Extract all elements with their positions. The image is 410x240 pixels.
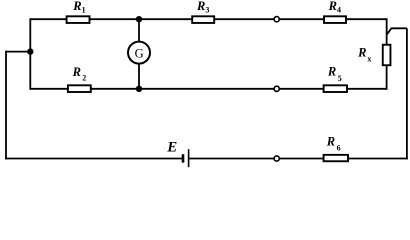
wire middle row R2 to node	[91, 88, 139, 90]
terminal (open circle) bottom row	[274, 156, 279, 161]
svg-text:1: 1	[82, 6, 86, 15]
node junction left branch	[27, 48, 33, 54]
wire left outer vertical	[5, 51, 7, 160]
svg-text:6: 6	[337, 144, 341, 153]
wire right vertical from top row down to Rx	[386, 18, 388, 44]
svg-text:4: 4	[337, 6, 341, 15]
node junction top of galvanometer	[136, 16, 142, 22]
svg-text:x: x	[367, 55, 371, 64]
resistor Rx	[357, 45, 390, 66]
wire Rx bottom lead	[386, 66, 388, 90]
svg-text:R: R	[72, 65, 81, 79]
svg-text:5: 5	[338, 74, 342, 83]
resistor R2	[68, 65, 91, 92]
wire left branch horizontal	[6, 51, 30, 53]
wire middle row R5 to right corner	[348, 88, 388, 90]
battery E	[166, 139, 188, 167]
svg-text:R: R	[196, 0, 205, 13]
wire diagonal branch to right edge	[387, 28, 407, 34]
svg-text:2: 2	[82, 74, 86, 83]
resistor R6	[324, 135, 348, 162]
svg-text:R: R	[327, 65, 336, 79]
wire bottom row battery to terminal	[189, 158, 273, 160]
svg-text:R: R	[72, 0, 81, 13]
terminal (open circle) middle row	[274, 86, 279, 91]
wire top row terminal to R4	[280, 18, 324, 20]
svg-text:R: R	[326, 135, 335, 149]
wire middle row left of R2	[30, 88, 67, 90]
resistor R1	[67, 0, 90, 23]
wire middle row node to terminal	[139, 88, 274, 90]
node junction bottom of galvanometer	[136, 86, 142, 92]
svg-text:3: 3	[205, 6, 209, 15]
wire left inner vertical top	[29, 18, 31, 51]
svg-text:R: R	[328, 0, 337, 13]
svg-text:R: R	[357, 46, 366, 60]
resistor R4	[324, 0, 346, 23]
svg-text:E: E	[166, 139, 177, 155]
wire bottom row terminal to R6	[280, 158, 323, 160]
wire top row node to R3	[139, 18, 192, 20]
terminal (open circle) top row	[274, 17, 279, 22]
svg-text:G: G	[135, 47, 144, 61]
wire top row R4 to right corner	[347, 18, 388, 20]
wire top row left of R1	[30, 18, 66, 20]
wire middle row terminal to R5	[280, 88, 323, 90]
wire top row R1 to node	[90, 18, 139, 20]
resistor R5	[324, 65, 347, 92]
galvanometer G	[128, 42, 150, 64]
wire bottom row left of battery	[5, 158, 182, 160]
wire galvanometer top lead	[138, 19, 140, 41]
wire top row R3 to terminal	[215, 18, 274, 20]
wire left inner vertical bottom	[29, 52, 31, 90]
wire right outer vertical	[406, 28, 408, 159]
resistor R3	[192, 0, 214, 23]
wire bottom row R6 to right corner	[349, 158, 408, 160]
wire galvanometer bottom lead	[138, 64, 140, 89]
